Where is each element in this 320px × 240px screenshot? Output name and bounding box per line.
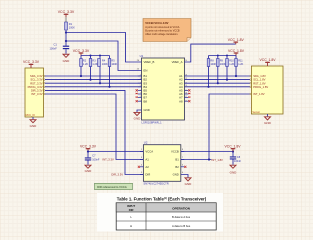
resistor R2 <box>80 56 82 77</box>
pin DIR of U2 <box>140 174 143 176</box>
svg-text:GND: GND <box>30 124 38 128</box>
svg-text:B2: B2 <box>175 165 179 169</box>
svg-text:SDA_3.3V: SDA_3.3V <box>30 74 43 78</box>
svg-text:EN: EN <box>144 69 148 73</box>
svg-text:B8: B8 <box>144 99 148 103</box>
transistor-like IC U2 transceiver <box>143 145 180 182</box>
svg-text:GND: GND <box>134 117 142 121</box>
svg-text:SDA_1.8V: SDA_1.8V <box>253 74 266 78</box>
pin B3 <box>138 82 142 84</box>
connector J1 MCU side <box>25 68 44 117</box>
pin A7 no-connect <box>185 97 189 99</box>
resistor R5 <box>109 56 111 87</box>
svg-text:R10: R10 <box>229 59 234 62</box>
capacitor C1 <box>63 46 69 47</box>
node junction VREF_B <box>65 31 67 33</box>
svg-text:C1: C1 <box>53 43 57 47</box>
svg-text:GND: GND <box>173 173 179 177</box>
svg-text:DIR_3.3V: DIR_3.3V <box>111 173 123 177</box>
note DIR referenced to VCCA <box>95 183 133 189</box>
svg-text:GND: GND <box>63 59 71 63</box>
resistor R3 <box>90 56 92 80</box>
svg-text:VCC_1.8V: VCC_1.8V <box>228 49 245 53</box>
svg-text:VCC_1.8V: VCC_1.8V <box>224 144 241 148</box>
svg-text:A8: A8 <box>179 99 183 103</box>
svg-text:VCCB>VCCA-0.8V: VCCB>VCCA-0.8V <box>145 21 168 25</box>
svg-text:3: 3 <box>140 78 141 80</box>
pin A8 no-connect <box>185 100 189 102</box>
wire DIR_3.3V <box>45 90 143 174</box>
resistor R10 <box>226 56 228 80</box>
wire PROG_3.3V <box>45 86 142 88</box>
wire pull-up rail (right) <box>209 55 237 57</box>
svg-text:A1: A1 <box>145 158 149 162</box>
svg-text:5: 5 <box>140 85 141 87</box>
ground at U1 <box>133 112 141 116</box>
svg-text:B1: B1 <box>175 158 179 162</box>
svg-text:GND: GND <box>85 169 93 173</box>
note voltage translation <box>143 19 191 42</box>
wire pull-up rail (left) <box>81 55 110 57</box>
wire B1 to INT_1.8V <box>181 159 212 161</box>
svg-text:H: H <box>130 224 132 228</box>
ground below connector J2 <box>267 114 269 116</box>
svg-text:RST_3.3V: RST_3.3V <box>30 81 43 85</box>
svg-text:INPUT: INPUT <box>127 204 135 208</box>
svg-text:PROG_3.3V: PROG_3.3V <box>28 85 43 89</box>
svg-text:U2: U2 <box>144 141 148 145</box>
svg-text:2: 2 <box>140 74 141 76</box>
svg-text:1.2K: 1.2K <box>229 63 234 66</box>
svg-text:VCC_3.3V: VCC_3.3V <box>23 60 40 64</box>
power VCC_1.8V (above right pull-up rail) <box>234 53 239 56</box>
pin B8 no-connect <box>138 100 142 102</box>
svg-text:A ports not referenced to VCCA: A ports not referenced to VCCA <box>145 26 180 29</box>
node junction EN <box>65 40 67 42</box>
pin A5 no-connect <box>185 89 189 91</box>
capacitor C7 <box>87 152 89 158</box>
svg-text:R1: R1 <box>69 22 73 26</box>
svg-text:INT_1.8V: INT_1.8V <box>253 92 265 96</box>
svg-text:U1: U1 <box>140 54 144 58</box>
svg-text:VCC_1.8V: VCC_1.8V <box>228 38 245 42</box>
resistor R11 <box>235 56 237 77</box>
pin VCCA <box>140 151 143 153</box>
svg-text:A data to B bus: A data to B bus <box>172 224 191 228</box>
pin B7 no-connect <box>138 97 142 99</box>
svg-text:RST_1.8V: RST_1.8V <box>253 81 266 85</box>
power VCC_3.3V (above connector J1) <box>29 64 34 68</box>
svg-text:8: 8 <box>140 96 141 98</box>
svg-text:PROG_1.8V: PROG_1.8V <box>253 85 268 89</box>
svg-text:VCC_3.3V: VCC_3.3V <box>58 10 75 14</box>
svg-text:GND: GND <box>230 171 238 175</box>
svg-text:100K: 100K <box>102 63 108 66</box>
ground below C8 <box>232 160 234 165</box>
wire INT_3.3V <box>45 94 143 160</box>
svg-text:LSF0108PWR_1: LSF0108PWR_1 <box>142 120 163 124</box>
svg-text:VCC_3.3V: VCC_3.3V <box>73 49 90 53</box>
wire INT_1.8V from connector <box>209 94 250 160</box>
pin B4 <box>138 86 142 88</box>
power VCC_3.3V (U2 VCCA) <box>86 149 91 152</box>
wire SCL_1.8V <box>185 79 251 81</box>
svg-text:R11: R11 <box>238 59 243 62</box>
pin B1 of U2 <box>181 159 184 161</box>
svg-text:17: 17 <box>185 96 187 98</box>
power VCC_1.8V (VREF_A) <box>234 42 239 44</box>
svg-text:1.2K: 1.2K <box>83 63 88 66</box>
wire R1 to C1 <box>65 30 67 46</box>
svg-text:INT_3.3V: INT_3.3V <box>102 158 114 162</box>
svg-text:100K: 100K <box>69 25 75 29</box>
power VCC_1.8V (U2 VCCB) <box>231 149 236 152</box>
svg-text:VCCA: VCCA <box>145 150 153 154</box>
pin B5 no-connect <box>138 89 142 91</box>
wire SCL_3.3V <box>45 79 142 81</box>
svg-text:100K: 100K <box>210 63 216 66</box>
svg-text:Table 1. Function Table(1) (Ea: Table 1. Function Table(1) (Each Transce… <box>117 196 207 201</box>
pin A1 of U2 <box>140 159 143 161</box>
resistor R1 <box>65 22 68 30</box>
resistor R8 <box>208 56 210 87</box>
svg-text:100nF: 100nF <box>234 160 242 163</box>
wire U2 GND <box>181 175 188 178</box>
svg-text:SN74LVC2T45DCTR: SN74LVC2T45DCTR <box>143 182 168 186</box>
svg-text:7: 7 <box>140 92 141 94</box>
svg-text:INT_1.8V: INT_1.8V <box>212 158 224 162</box>
wire PROG_1.8V <box>185 86 251 88</box>
svg-text:GND: GND <box>264 121 272 125</box>
svg-text:VCC_1.8V: VCC_1.8V <box>259 58 276 62</box>
svg-text:DIR referenced to VCCA: DIR referenced to VCCA <box>97 185 127 189</box>
pin A2 of U2 no-connect <box>140 166 143 168</box>
svg-text:GND: GND <box>185 182 193 186</box>
svg-text:SCL_3.3V: SCL_3.3V <box>30 78 42 82</box>
svg-text:A2: A2 <box>145 165 149 169</box>
table white backing <box>97 193 223 232</box>
svg-text:DIR_3.3V: DIR_3.3V <box>31 89 43 93</box>
pin VCCB <box>181 151 184 153</box>
pin B6 no-connect <box>138 93 142 95</box>
svg-text:100K: 100K <box>220 63 226 66</box>
svg-text:100nF: 100nF <box>49 46 57 50</box>
connector J2 sensor side <box>251 66 283 114</box>
ground below C1 <box>62 54 70 58</box>
capacitor C8 <box>232 152 234 157</box>
svg-text:1.2K: 1.2K <box>238 63 243 66</box>
svg-text:VCC_3.3V: VCC_3.3V <box>80 144 97 148</box>
pin B2 <box>138 79 142 81</box>
resistor R4 <box>99 56 101 84</box>
ground at U2 <box>184 177 192 181</box>
pin A6 no-connect <box>185 93 189 95</box>
svg-text:9: 9 <box>140 101 141 103</box>
svg-text:VCCB: VCCB <box>171 150 179 154</box>
svg-text:SCL_1.8V: SCL_1.8V <box>253 78 265 82</box>
svg-text:100nF: 100nF <box>92 158 100 161</box>
svg-text:Sensor: Sensor <box>252 111 260 114</box>
pin B2 of U2 no-connect <box>181 166 184 168</box>
op-amp U1 level shifter <box>142 58 185 120</box>
node rail junctions <box>90 55 92 57</box>
svg-text:DIR: DIR <box>129 208 134 212</box>
function table <box>116 203 216 230</box>
wire VCCB <box>181 151 233 153</box>
svg-text:B data to A bus: B data to A bus <box>172 215 191 219</box>
pin B1 <box>138 75 142 77</box>
svg-text:MCU_IO: MCU_IO <box>26 114 35 117</box>
power VCC_3.3V (above pull-up rail) <box>79 53 84 56</box>
wire VREF_A to VCC_1.8V <box>185 44 236 62</box>
wire SDA_3.3V <box>45 75 142 77</box>
svg-text:B ports not referenced to VCCB: B ports not referenced to VCCB <box>145 29 180 32</box>
svg-text:16: 16 <box>185 101 187 103</box>
power VCC_1.8V (above connector J2) <box>265 62 270 66</box>
wire SDA_1.8V <box>185 75 251 77</box>
svg-text:INT_3.3V: INT_3.3V <box>31 92 43 96</box>
svg-text:DIR: DIR <box>145 173 150 177</box>
svg-text:VREF_B: VREF_B <box>144 60 155 64</box>
resistor R9 <box>217 56 219 84</box>
wire RST_1.8V <box>185 82 251 84</box>
ground below connector J1 <box>32 117 34 119</box>
svg-text:18: 18 <box>185 92 187 94</box>
wire VREF_B net <box>66 33 142 63</box>
svg-text:VREF_A: VREF_A <box>172 60 183 64</box>
ground below C7 <box>87 161 89 165</box>
svg-text:Allow multi-voltage translatio: Allow multi-voltage translation. <box>145 33 178 36</box>
svg-text:1.2K: 1.2K <box>92 63 97 66</box>
svg-text:100K: 100K <box>111 63 117 66</box>
wire EN net <box>66 41 142 71</box>
wire RST_3.3V <box>45 82 142 84</box>
wire VCCA <box>88 151 143 153</box>
svg-text:GND: GND <box>144 108 150 112</box>
wire C1 to ground <box>65 49 67 53</box>
power VCC_3.3V (top, above R1) <box>64 14 69 22</box>
svg-text:OPERATION: OPERATION <box>172 206 190 210</box>
